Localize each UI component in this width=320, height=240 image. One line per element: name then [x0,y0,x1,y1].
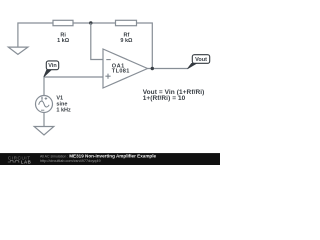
ground GND2 below V1 [34,127,54,136]
svg-text:http://circuitlab.com/csn4977d: http://circuitlab.com/csn4977doyq49 [40,159,101,163]
wire: op-amp output to Vout [148,68,189,70]
resistor Ri [53,20,73,44]
wire: Rf right, feedback down to output [137,23,153,69]
wire: Vin node to non-inverting input [44,76,103,78]
svg-text:All AC simulation : ME319 Non-: All AC simulation : ME319 Non-Inverting … [40,154,157,159]
svg-text:TL081: TL081 [112,69,130,75]
junction: output/feedback node [151,67,154,70]
wire: V1 to GND2 [43,113,45,127]
svg-text:sine: sine [56,101,67,107]
svg-text:Vin: Vin [48,63,57,69]
svg-text:Vout: Vout [195,57,207,63]
svg-text:LAB: LAB [21,160,32,165]
wire: Ri right to Rf left (top net) [73,22,116,24]
svg-text:9 kΩ: 9 kΩ [120,38,133,44]
voltage source V1 sine [36,95,72,113]
footer banner background [0,153,220,165]
wire: node A down to inverting input [91,23,103,60]
wire: GND1 up and right to Ri [18,23,53,47]
svg-text:1 kHz: 1 kHz [56,108,71,114]
svg-text:1+(Rf/Ri) = 10: 1+(Rf/Ri) = 10 [143,95,186,102]
non-inverting input plus sign [105,74,110,79]
junction: node A (Ri/Rf/inverting input) [89,21,92,24]
wire: Vin node down to V1 [43,77,45,96]
ground GND1 top-left [8,47,28,54]
op-amp OA1 TL081 [103,49,148,88]
node label Vout [188,55,210,69]
node label Vin [44,61,59,77]
inverting input minus sign [106,59,110,61]
svg-text:V1: V1 [56,95,63,101]
svg-text:1 kΩ: 1 kΩ [57,38,70,44]
CircuitLab logo: waveform + LAB [8,160,32,165]
resistor Rf [116,20,137,44]
